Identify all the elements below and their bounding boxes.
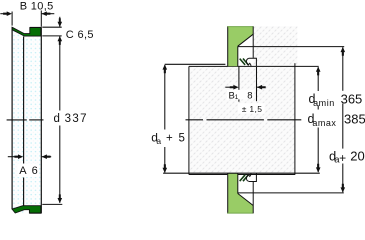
bottom V-ring seal (mirrored): [227, 173, 256, 213]
white exterior below foot tip: [12, 209, 16, 213]
svg-text:amin: amin: [313, 98, 335, 108]
svg-text:+: +: [339, 151, 346, 165]
dimension B: [0, 0, 54, 27]
extension line d_a+5 top: [165, 63, 226, 65]
hatched block above, right of seal: [253, 26, 297, 66]
d_amin / d_amax dimension: [308, 67, 365, 173]
dimension C: [42, 17, 94, 45]
extension line d_a+5 / d_amax bottom: [163, 172, 320, 174]
top V-ring seal (light green): [227, 26, 256, 66]
svg-text:amax: amax: [312, 118, 336, 128]
svg-text:6: 6: [32, 165, 38, 177]
svg-text:± 1,5: ± 1,5: [242, 104, 263, 114]
dimension A: [8, 154, 51, 177]
white pocket under foot: [24, 210, 29, 214]
shaft cross-section (hatched): [189, 66, 295, 174]
svg-text:+: +: [166, 133, 173, 145]
svg-text:385: 385: [344, 111, 365, 126]
dimension d 337: [42, 36, 88, 204]
svg-text:365: 365: [341, 92, 363, 107]
svg-text:C 6,5: C 6,5: [66, 29, 94, 41]
B1 8 / ±1,5 dimension: [225, 67, 265, 114]
svg-text:B 10,5: B 10,5: [20, 0, 54, 12]
svg-text:a: a: [156, 136, 161, 146]
band outlines: [11, 27, 13, 209]
seal band body fill: [12, 27, 42, 214]
extension line d_a+20 top: [238, 46, 344, 48]
svg-text:A: A: [19, 165, 27, 177]
extension line d_a+20 bottom: [238, 192, 344, 194]
svg-text:1: 1: [235, 94, 239, 101]
svg-text:20: 20: [350, 148, 364, 163]
centerline: [7, 119, 27, 121]
horizontal centerline of shaft: [186, 119, 302, 121]
seal foot (bottom, dark green): [12, 206, 41, 213]
inner line between lip zone and body: [23, 36, 25, 163]
squiggle + step: [246, 58, 251, 66]
lip tip hatched strokes: [240, 59, 245, 65]
d_a + 5 dimension: [151, 64, 185, 173]
svg-text:5: 5: [179, 132, 185, 144]
seal lip (top, dark green): [12, 27, 41, 36]
white exterior above lip diagonal / pocket: [12, 27, 30, 34]
svg-text:8: 8: [247, 90, 252, 101]
shaft outline: [189, 65, 319, 67]
svg-text:337: 337: [65, 113, 88, 125]
svg-text:d: d: [54, 113, 60, 125]
d_a + 20 dimension: [329, 47, 365, 193]
